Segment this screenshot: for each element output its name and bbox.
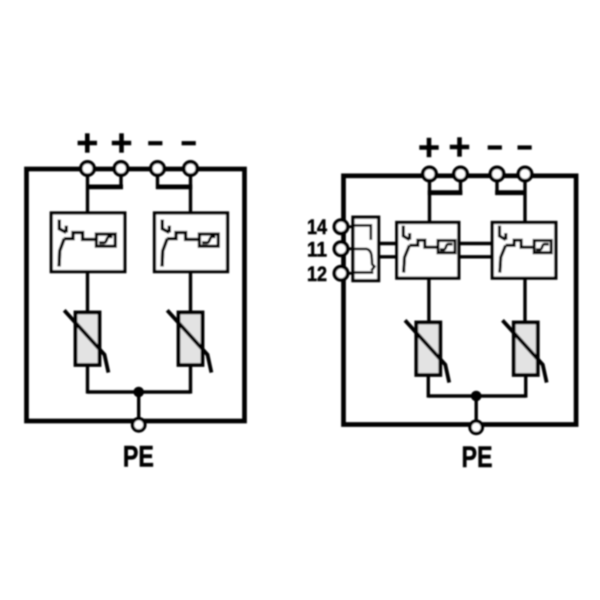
svg-text:PE: PE bbox=[123, 440, 154, 473]
svg-text:11: 11 bbox=[307, 238, 327, 261]
svg-text:12: 12 bbox=[307, 263, 327, 286]
svg-text:14: 14 bbox=[307, 216, 327, 239]
svg-text:PE: PE bbox=[462, 441, 493, 474]
